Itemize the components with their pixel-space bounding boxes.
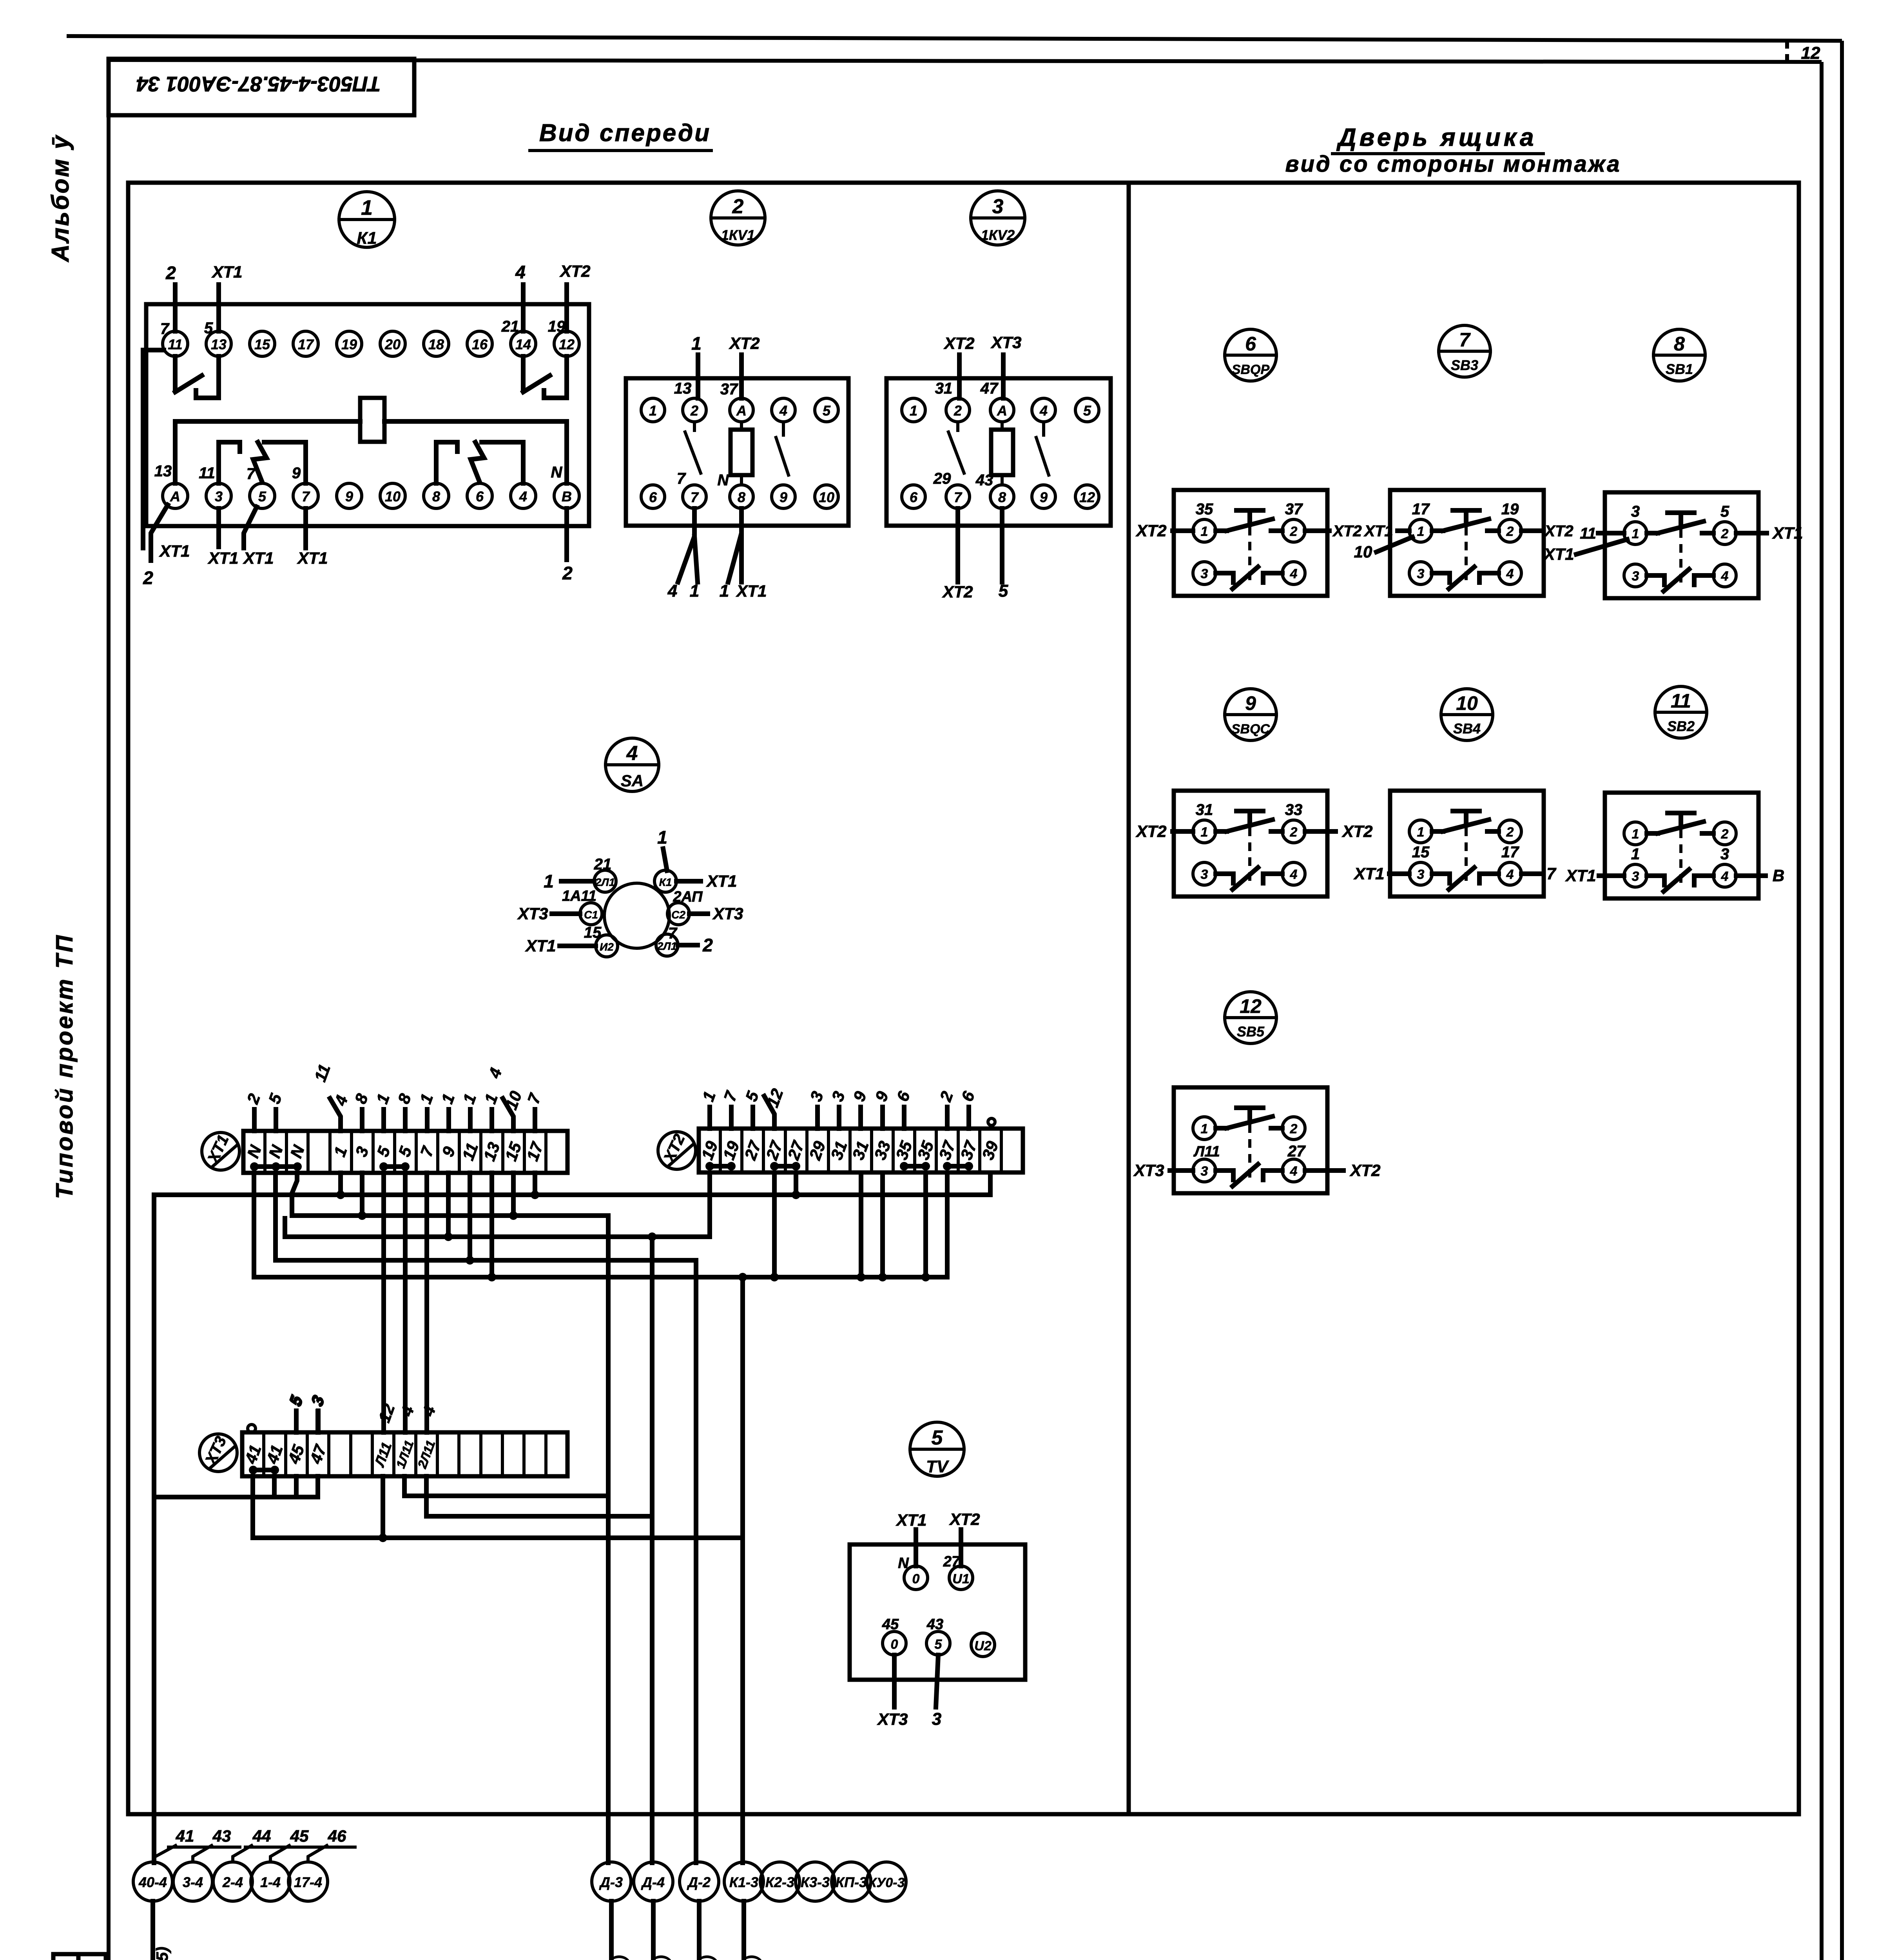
relay 1KV2 contacts (948, 422, 1049, 475)
svg-text:37: 37 (1285, 501, 1303, 518)
svg-text:27: 27 (1287, 1143, 1306, 1160)
terminal strip ХТ3 designator circle (199, 1434, 237, 1472)
switch SA contact 2L1 SE (656, 934, 713, 956)
svg-text:4: 4 (1039, 403, 1048, 419)
cable circle K3-3 (796, 1862, 835, 1901)
svg-text:К3-3: К3-3 (801, 1874, 830, 1890)
svg-text:SА: SА (621, 771, 644, 790)
wire XT1 N2 drop (273, 1173, 278, 1260)
cable circle D-2 (680, 1862, 719, 1901)
transformer TV pin 0 primary (896, 1511, 928, 1590)
svg-text:5: 5 (258, 488, 266, 505)
svg-text:4: 4 (519, 488, 527, 505)
svg-text:ХТ3: ХТ3 (1133, 1161, 1164, 1180)
svg-text:4: 4 (1506, 867, 1514, 882)
relay K1 contact 14-12 (523, 356, 567, 398)
svg-text:43: 43 (212, 1827, 231, 1845)
view divider line (1127, 183, 1131, 1814)
relay 1KV1 contacts (685, 422, 789, 475)
wire XT2 cell27c drop (792, 1173, 800, 1199)
svg-text:2: 2 (562, 563, 573, 583)
svg-text:8: 8 (738, 489, 745, 505)
cable KMD wire D-4 (629, 1901, 671, 1960)
svg-text:5: 5 (204, 319, 213, 337)
wire XT1 cell15 drop (509, 1173, 518, 1220)
wire bus H5 (254, 1275, 947, 1279)
svg-text:ХТ1: ХТ1 (706, 872, 737, 890)
wire XT1 cell17 drop (531, 1173, 539, 1199)
wire vertical V0 to cable 40-4 (152, 1195, 156, 1863)
svg-text:ХТ3: ХТ3 (990, 333, 1021, 352)
svg-text:9: 9 (292, 465, 301, 482)
svg-text:46: 46 (328, 1827, 346, 1845)
svg-text:17-4: 17-4 (294, 1874, 322, 1890)
svg-text:14: 14 (515, 336, 531, 352)
svg-text:35: 35 (1196, 501, 1213, 518)
svg-text:К1: К1 (659, 876, 672, 888)
svg-text:47: 47 (980, 380, 999, 397)
svg-text:ХТ2: ХТ2 (949, 1510, 980, 1528)
svg-text:10: 10 (819, 489, 834, 505)
svg-text:3: 3 (1632, 569, 1639, 584)
svg-text:2: 2 (732, 195, 744, 218)
svg-text:ХТ1: ХТ1 (159, 542, 190, 560)
wire XT2 cell39 drop (988, 1173, 993, 1195)
svg-text:Д-3: Д-3 (599, 1874, 623, 1890)
svg-text:ХТ1: ХТ1 (736, 582, 767, 600)
svg-text:8: 8 (432, 488, 440, 505)
transformer TV body (850, 1544, 1025, 1680)
svg-text:4: 4 (1290, 1164, 1298, 1179)
svg-text:А: А (170, 488, 180, 505)
button SBQP body (1174, 490, 1327, 596)
relay K1 contact 3-5-7 (219, 442, 306, 483)
svg-text:3: 3 (1632, 869, 1639, 884)
svg-text:АКВВГ-1 (7х2,5): АКВВГ-1 (7х2,5) (743, 1955, 761, 1960)
terminal strip ХТ1 designator circle (202, 1132, 239, 1170)
svg-text:2: 2 (143, 568, 153, 588)
margin text Tipovoy proekt TP (51, 933, 78, 1199)
wire XT3 1L11 to V1 (404, 1476, 608, 1496)
svg-text:2: 2 (165, 263, 176, 283)
svg-text:5: 5 (1720, 503, 1729, 520)
svg-text:6: 6 (910, 489, 918, 505)
cable circle 3-4 (173, 1862, 212, 1901)
relay 1KV2 body (886, 378, 1111, 526)
terminal strip ХТ1 top stub wires (243, 1091, 544, 1131)
svg-text:2: 2 (954, 403, 962, 419)
svg-text:В: В (562, 488, 572, 505)
svg-text:40-4: 40-4 (138, 1874, 167, 1890)
relay K1 bottom labels (154, 463, 563, 483)
wire XT3 41 bottom bus to V4 (253, 1476, 743, 1542)
svg-text:1А11: 1А11 (562, 888, 596, 904)
switch SA contact I2 SW (525, 935, 618, 957)
svg-text:11: 11 (168, 336, 182, 352)
outer border top line (67, 36, 1842, 41)
switch SA designator circle (605, 738, 659, 791)
cable circle 2-4 (213, 1862, 252, 1901)
svg-text:0: 0 (891, 1637, 898, 1652)
svg-text:7: 7 (1459, 329, 1471, 351)
transformer TV pin U2 (971, 1633, 995, 1657)
button SBQP wires (1135, 501, 1361, 540)
margin block table (53, 1954, 106, 1960)
svg-text:12: 12 (1240, 995, 1262, 1017)
wire bus H3 (285, 1234, 710, 1239)
button SBQC body (1174, 791, 1327, 897)
cable circle K1-3 (724, 1862, 763, 1901)
svg-text:1: 1 (690, 581, 699, 601)
wire H3 left stub (283, 1218, 287, 1237)
svg-text:К2-3: К2-3 (765, 1874, 794, 1890)
svg-text:ХТ1: ХТ1 (1772, 524, 1803, 542)
svg-text:К1: К1 (357, 229, 377, 248)
button SB5 wires (1133, 1143, 1380, 1180)
cable circle KU0-3 (867, 1862, 906, 1901)
terminal strip ХТ1 body (243, 1131, 567, 1173)
terminal strip ХТ3 top stub wires (285, 1392, 328, 1432)
svg-text:45: 45 (290, 1827, 309, 1845)
svg-text:SВ4: SВ4 (1453, 720, 1481, 737)
button SB1 designator circle (1653, 329, 1705, 381)
button SB1 wires (1543, 503, 1803, 563)
svg-text:2: 2 (1506, 825, 1514, 840)
button SB2 body (1605, 793, 1758, 898)
svg-text:Д-4: Д-4 (641, 1874, 665, 1890)
wire XT2 cell37 drop (945, 1173, 950, 1277)
relay 1KV2 coil (991, 422, 1013, 485)
terminal strip ХТ3 cell numbers (241, 1439, 438, 1471)
relay 1KV2 pins (902, 398, 1099, 508)
margin text Album U (47, 134, 74, 263)
svg-text:Вид спереди: Вид спереди (539, 120, 711, 147)
svg-text:АКВВГ-1 (4х2,5): АКВВГ-1 (4х2,5) (611, 1955, 629, 1960)
transformer TV designator circle (910, 1422, 964, 1476)
transformer TV pin U1 (943, 1510, 980, 1590)
svg-text:А: А (736, 403, 747, 419)
wire bus H4 (276, 1258, 696, 1263)
svg-text:5: 5 (823, 403, 831, 419)
svg-text:9: 9 (780, 489, 787, 505)
svg-text:ХТ3: ХТ3 (877, 1710, 908, 1728)
wire XT2 cell35 drop (921, 1173, 930, 1281)
wire bus H1 (154, 1192, 990, 1197)
relay K1 top wires and labels (175, 285, 567, 331)
svg-text:1: 1 (544, 871, 554, 891)
button SBQC wires (1135, 801, 1372, 840)
svg-text:9: 9 (1040, 489, 1048, 505)
svg-text:15: 15 (254, 336, 270, 352)
relay 1KV1 body (626, 378, 848, 526)
svg-text:ХТ1: ХТ1 (525, 936, 556, 955)
svg-text:КП-3: КП-3 (836, 1874, 867, 1890)
svg-text:2: 2 (690, 403, 698, 419)
outer border right line (1840, 41, 1844, 1960)
cable circle 17-4 (288, 1862, 328, 1901)
svg-text:3: 3 (932, 1710, 941, 1729)
wire XT1 N1 drop (252, 1173, 256, 1277)
svg-text:1: 1 (361, 196, 373, 220)
svg-text:3: 3 (1417, 867, 1425, 882)
svg-text:15: 15 (1412, 844, 1430, 861)
svg-text:АКВВГ-1 (4х2,5): АКВВГ-1 (4х2,5) (698, 1955, 717, 1960)
svg-text:19: 19 (548, 318, 566, 335)
svg-text:2: 2 (1721, 827, 1729, 842)
wire vertical V2 to cable D-4 (648, 1232, 656, 1863)
svg-text:ХТ1: ХТ1 (297, 549, 328, 567)
cable XTO down wire (128, 1901, 171, 1960)
svg-text:вид со стороны монтажа: вид со стороны монтажа (1285, 151, 1621, 177)
button SBQC designator circle (1225, 689, 1276, 740)
button SB4 body (1390, 791, 1544, 897)
cable tag 45 (270, 1827, 317, 1862)
transformer TV pin 5 (926, 1616, 950, 1729)
svg-text:Д-2: Д-2 (687, 1874, 711, 1890)
cable KMD wire D-3 (587, 1901, 629, 1960)
main drawing box (128, 183, 1799, 1814)
cable circle D-4 (634, 1862, 673, 1901)
svg-text:1КV1: 1КV1 (721, 227, 755, 243)
svg-text:1: 1 (649, 403, 657, 419)
svg-text:10: 10 (385, 488, 401, 505)
svg-text:Типовой проект ТП: Типовой проект ТП (51, 933, 78, 1199)
wire vertical V4 to cable K1-3 (738, 1273, 747, 1863)
svg-text:SВ1: SВ1 (1666, 361, 1693, 377)
svg-text:3: 3 (1201, 1164, 1208, 1179)
svg-text:1: 1 (1417, 524, 1425, 539)
svg-text:3-4: 3-4 (183, 1874, 203, 1890)
svg-text:19: 19 (341, 336, 357, 352)
svg-text:1: 1 (1201, 825, 1208, 840)
terminal strip ХТ3 body (242, 1432, 567, 1476)
svg-text:11: 11 (1671, 690, 1691, 712)
svg-text:В: В (1773, 866, 1784, 885)
wire XT2 cell31 drop (857, 1173, 865, 1281)
wire XT2 cell33 drop (878, 1173, 887, 1281)
svg-text:13: 13 (211, 336, 227, 352)
relay K1 top pin row (163, 331, 579, 356)
cable tag 44 (233, 1827, 280, 1862)
wire XT2 cell19 drop (707, 1173, 712, 1237)
terminal strip ХТ1 jumper dots (250, 1162, 410, 1171)
svg-text:К1-3: К1-3 (729, 1874, 758, 1890)
svg-text:ХТ2: ХТ2 (1135, 822, 1166, 840)
terminal strip ХТ2 designator circle (658, 1131, 696, 1169)
svg-text:17: 17 (1412, 501, 1430, 518)
cable tag 41 (154, 1827, 203, 1857)
relay K1 designator circle (339, 192, 395, 248)
svg-text:ХТ2: ХТ2 (1135, 521, 1166, 540)
switch SA body circle (604, 883, 669, 948)
wire XT2 cell27b drop (770, 1173, 779, 1281)
wire XT3 2L11 to V2 (426, 1476, 652, 1516)
svg-text:4: 4 (667, 581, 677, 601)
button SB2 designator circle (1655, 686, 1707, 738)
svg-text:45: 45 (882, 1616, 899, 1633)
svg-text:8: 8 (1674, 333, 1685, 355)
svg-text:3: 3 (992, 195, 1004, 218)
svg-text:2: 2 (1290, 825, 1298, 840)
svg-text:4: 4 (1721, 569, 1729, 584)
svg-text:1: 1 (1632, 526, 1639, 541)
wire XT1 cell11 drop (466, 1173, 474, 1265)
wire XT3 left bus (154, 1476, 318, 1497)
svg-text:43: 43 (975, 472, 993, 489)
svg-text:8: 8 (998, 489, 1006, 505)
svg-text:АКВВГ-1 (10х2,5): АКВВГ-1 (10х2,5) (153, 1947, 171, 1960)
svg-text:4: 4 (1290, 566, 1298, 581)
svg-text:4: 4 (626, 742, 638, 765)
svg-text:6: 6 (476, 488, 484, 505)
svg-text:21: 21 (594, 856, 612, 873)
svg-text:29: 29 (933, 470, 951, 487)
svg-text:12: 12 (559, 336, 575, 352)
wire XT1 N3 drop (292, 1173, 297, 1216)
svg-text:2Л1: 2Л1 (657, 940, 677, 952)
svg-text:ХТ1: ХТ1 (1543, 545, 1574, 563)
svg-text:37: 37 (720, 381, 738, 398)
wire XT1 cell7 to XT3 2L11 (419, 1173, 439, 1432)
svg-text:ХТ1: ХТ1 (1353, 864, 1384, 883)
terminal strip XT3 corner mark (248, 1425, 256, 1432)
svg-text:А: А (997, 403, 1007, 419)
heading front view (530, 120, 711, 151)
svg-text:1КV2: 1КV2 (981, 227, 1015, 243)
svg-text:2: 2 (1290, 524, 1298, 539)
relay K1 bottom wires (143, 350, 567, 561)
svg-text:17: 17 (1501, 844, 1519, 861)
svg-text:ХТ1: ХТ1 (1565, 866, 1596, 885)
svg-text:2: 2 (702, 935, 713, 955)
wire XT1 cell1 drop (336, 1173, 345, 1199)
svg-text:4: 4 (779, 403, 787, 419)
button SB3 wires (1354, 501, 1574, 561)
transformer TV pin 0 secondary (877, 1616, 908, 1728)
button SBQP designator circle (1225, 329, 1276, 381)
svg-text:31: 31 (935, 380, 953, 397)
svg-text:АКВВГ-1 (4х2,5): АКВВГ-1 (4х2,5) (653, 1955, 671, 1960)
relay K1 contact 8-6-4 (436, 442, 523, 483)
svg-text:44: 44 (252, 1827, 271, 1845)
relay K1 coil (175, 398, 567, 483)
svg-text:1: 1 (1201, 524, 1208, 539)
svg-text:7: 7 (691, 489, 699, 505)
svg-text:11: 11 (199, 465, 215, 482)
wire XT1 cell13 drop (488, 1173, 496, 1281)
svg-text:ТV: ТV (926, 1457, 950, 1476)
cable tag 43 (193, 1827, 240, 1862)
sheet number cell 12 top-right (1787, 41, 1820, 63)
terminal strip XT1 diagonal stub labels (330, 1098, 513, 1131)
svg-text:5: 5 (932, 1426, 943, 1449)
relay 1KV2 bottom wires (958, 508, 1002, 582)
cable circle 40-4 (133, 1862, 172, 1901)
cable Dvigatel wire K1-3 (720, 1901, 761, 1960)
svg-text:11: 11 (1580, 525, 1596, 542)
svg-text:16: 16 (472, 336, 488, 352)
button SB3 body (1390, 490, 1544, 596)
svg-text:3: 3 (1631, 503, 1640, 520)
svg-text:ХТ3: ХТ3 (712, 904, 743, 923)
svg-text:N: N (718, 472, 729, 489)
svg-text:12: 12 (1079, 489, 1095, 505)
svg-text:7: 7 (1546, 864, 1556, 883)
svg-text:ХТ2: ХТ2 (1341, 822, 1372, 840)
terminal strip ХТ2 cell numbers (698, 1138, 1002, 1162)
button SB5 body (1174, 1087, 1327, 1193)
svg-text:17: 17 (298, 336, 314, 352)
switch SA contact 2L1 NW (544, 856, 616, 892)
svg-text:31: 31 (1196, 801, 1213, 818)
svg-text:Альбом ӯ: Альбом ӯ (47, 134, 74, 263)
svg-text:5: 5 (999, 581, 1008, 601)
svg-text:3: 3 (1201, 867, 1208, 882)
terminal strip ХТ3 jumper dots (249, 1466, 279, 1474)
svg-text:ХТ2: ХТ2 (729, 334, 760, 352)
svg-text:ТП503-4-45.87-ЭА001 34: ТП503-4-45.87-ЭА001 34 (136, 72, 381, 96)
svg-text:ХТ1: ХТ1 (243, 549, 274, 567)
button SB4 designator circle (1441, 689, 1493, 740)
svg-text:1: 1 (910, 403, 917, 419)
svg-text:3: 3 (1720, 846, 1729, 863)
svg-text:7: 7 (302, 488, 310, 505)
svg-text:10: 10 (1354, 543, 1372, 561)
svg-text:21: 21 (501, 318, 519, 335)
button SB4 wires (1353, 844, 1556, 883)
svg-text:U2: U2 (974, 1639, 992, 1653)
svg-text:6: 6 (1245, 333, 1256, 355)
svg-text:ХТ1: ХТ1 (211, 263, 242, 281)
svg-text:N: N (551, 464, 563, 481)
svg-text:1: 1 (1631, 846, 1640, 863)
switch SA contact C2 E (667, 889, 743, 942)
heading door of box (1285, 123, 1621, 177)
svg-text:13: 13 (674, 380, 692, 397)
svg-text:ХТ3: ХТ3 (517, 904, 548, 923)
svg-text:С2: С2 (671, 909, 685, 921)
terminal strip ХТ2 jumper dots (705, 1162, 973, 1171)
svg-text:ХТ1: ХТ1 (896, 1511, 926, 1529)
svg-text:U1: U1 (952, 1572, 969, 1586)
button SB1 body (1605, 492, 1758, 598)
relay 1KV2 top wires (959, 355, 1003, 398)
cable circle K2-3 (760, 1862, 799, 1901)
inverted designation stamp TP503-4-45.87 (109, 59, 414, 115)
svg-text:41: 41 (176, 1827, 194, 1845)
switch SA contact K1 NE (654, 827, 737, 892)
svg-text:6: 6 (649, 489, 657, 505)
svg-text:33: 33 (1285, 801, 1303, 818)
svg-text:1: 1 (691, 333, 702, 354)
switch SA contact C1 W (517, 888, 602, 941)
relay 1KV1 designator circle (711, 191, 765, 245)
button SB5 designator circle (1225, 992, 1276, 1044)
svg-text:1: 1 (1201, 1122, 1208, 1136)
svg-text:ХТ2: ХТ2 (559, 262, 590, 280)
terminal strip ХТ1 cell numbers (243, 1139, 547, 1163)
svg-text:ХТ1: ХТ1 (1363, 523, 1393, 540)
svg-text:13: 13 (154, 463, 172, 480)
svg-text:ХТ2: ХТ2 (1349, 1161, 1380, 1180)
svg-text:2Л1: 2Л1 (595, 876, 615, 888)
wire XT1 cell9 drop (444, 1173, 453, 1241)
relay 1KV1 top wires (698, 355, 741, 398)
svg-text:18: 18 (428, 336, 444, 352)
relay K1 contact 11-13 (175, 356, 219, 398)
svg-text:ХТ2: ХТ2 (1332, 523, 1361, 540)
button SB3 designator circle (1439, 325, 1490, 377)
